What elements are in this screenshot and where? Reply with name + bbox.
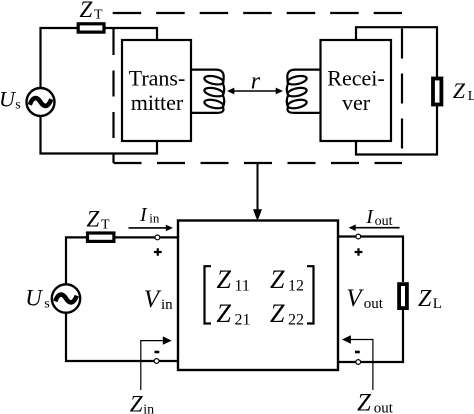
minus sign (left) [155,351,160,354]
wire receiver to load [356,27,437,154]
plus sign (left) [154,248,162,256]
svg-text:Z: Z [270,299,285,328]
resistor Z_T (bottom) [88,233,114,241]
wire bottom-left top [66,237,86,284]
node + terminal (top right) [356,234,361,239]
wire bottom-left bottom [66,313,178,361]
svg-text:Recei-: Recei- [327,66,384,91]
svg-text:11: 11 [235,277,250,294]
two-port network box [178,221,338,371]
wire resistor to box [115,236,179,238]
Z-matrix bracket right [307,266,314,323]
svg-text:Z: Z [270,265,285,294]
svg-text:Trans-: Trans- [129,66,186,91]
svg-text:out: out [374,400,394,414]
svg-text:L: L [468,89,474,104]
arrow I_out [355,227,400,229]
svg-text:out: out [364,296,384,312]
svg-text:out: out [375,214,393,229]
transmitter box [122,40,191,141]
svg-text:21: 21 [235,312,251,329]
source U_s (top) [27,88,55,116]
svg-text:mitter: mitter [131,90,184,115]
svg-text:in: in [161,297,173,313]
svg-text:22: 22 [288,312,304,329]
wire bottom-right top [338,237,403,283]
source U_s (bottom) [52,284,80,312]
svg-text:Z: Z [130,391,143,414]
svg-text:12: 12 [288,277,304,294]
svg-text:I: I [139,204,148,226]
svg-text:s: s [15,97,20,112]
svg-text:s: s [44,296,49,311]
load Z_L (bottom) [399,284,407,308]
svg-text:T: T [94,8,103,23]
node - terminal (bottom right) [356,360,361,365]
load Z_L (top) [433,79,441,105]
svg-text:Z: Z [418,286,432,312]
svg-text:T: T [101,218,110,233]
arrow dashed box to two-port [257,164,259,211]
svg-text:ver: ver [342,90,371,115]
svg-text:L: L [433,296,442,312]
transmitter coil L1 [191,70,224,113]
svg-text:Z: Z [217,265,232,294]
Z_in pointer [141,341,166,390]
svg-text:Z: Z [80,0,93,22]
node - terminal (bottom left) [154,359,159,364]
svg-text:in: in [143,402,154,414]
svg-text:Z: Z [87,207,100,232]
svg-text:Z: Z [357,390,372,414]
dashed box (wireless link region) [113,13,402,163]
receiver coil L2 [287,70,321,113]
minus sign (right) [355,351,360,354]
svg-text:in: in [149,211,160,226]
arrow I_in [129,227,168,229]
svg-text:r: r [251,69,261,95]
resistor Z_T (top) [78,24,104,32]
wire bottom-right bottom [338,310,403,362]
svg-text:I: I [365,206,374,228]
wire resistor to transmitter [106,28,158,40]
wire top-left loop [41,28,78,88]
receiver box [321,40,392,141]
Z_out pointer [348,340,373,391]
Z-matrix bracket left [205,266,212,323]
wire bottom of top loop [41,116,158,154]
svg-text:Z: Z [453,78,466,103]
distance arrow r [231,90,279,92]
node + terminal (top left) [155,235,160,240]
svg-text:Z: Z [217,299,232,328]
plus sign (right) [355,248,363,256]
svg-text:U: U [25,285,43,310]
